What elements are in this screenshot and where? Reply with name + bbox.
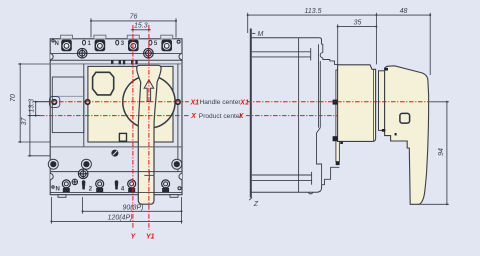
- Z label: [249, 197, 252, 200]
- bottom pole labels: [56, 187, 125, 193]
- X product center line left segment: [40, 115, 190, 117]
- pointer notch: [385, 68, 388, 71]
- X1 handle center line right segment: [247, 101, 429, 103]
- dimension 76: [90, 18, 92, 37]
- din clip outline bottom: [308, 167, 339, 194]
- svg-text:15.3: 15.3: [134, 22, 148, 29]
- knob circle: [123, 76, 175, 128]
- svg-text:120(4P): 120(4P): [108, 215, 133, 222]
- terminal bumps above top strip: [61, 35, 173, 39]
- dimension 15.3: [131, 29, 151, 31]
- dimension 70: [19, 64, 21, 142]
- svg-text:M: M: [258, 31, 264, 38]
- side body main: [338, 65, 376, 142]
- octagon pad: [93, 72, 114, 95]
- escutcheon panel (yellow): [88, 66, 173, 142]
- padlock hole: [400, 113, 410, 123]
- svg-text:48: 48: [400, 8, 408, 15]
- dimension 113.5: [247, 13, 249, 33]
- left recess rectangle: [52, 77, 84, 133]
- feet below body: [58, 195, 66, 198]
- big cross screws top: [77, 48, 153, 58]
- recess divider line: [52, 95, 84, 97]
- centermark cross on Y1: [144, 174, 154, 176]
- top terminal housings with rings: [61, 40, 172, 52]
- mounting plate: [250, 29, 322, 198]
- slotted screw below panel: [111, 150, 118, 157]
- svg-text:35: 35: [354, 19, 362, 26]
- svg-text:X1: X1: [239, 99, 249, 106]
- svg-text:113.5: 113.5: [305, 8, 322, 15]
- pole labels top: N 1 3 5: [55, 41, 158, 47]
- dimension 90(3P): [82, 197, 84, 214]
- face divider lines: [83, 64, 85, 147]
- svg-text:Handle center: Handle center: [200, 99, 242, 106]
- din clip column: [317, 44, 322, 185]
- din rail rod top: [252, 48, 311, 60]
- small square on panel: [119, 133, 126, 141]
- handle: [385, 66, 429, 205]
- body tabs: [333, 100, 338, 105]
- dimension 13.3: [35, 102, 37, 116]
- bottom terminal rings: [62, 180, 169, 193]
- dimension end dots front: [19, 20, 182, 223]
- X1 handle center line left segment: [50, 101, 189, 103]
- bottom strip inner line: [50, 191, 182, 193]
- left ear outline: [49, 97, 59, 108]
- din rail rod bottom: [252, 172, 312, 185]
- dimension 94: [429, 101, 449, 103]
- M label: [252, 32, 255, 34]
- black extension at X1 left: [36, 101, 50, 103]
- dimension 120(4P): [50, 197, 52, 224]
- svg-text:13.3: 13.3: [28, 99, 35, 113]
- ear screws: [48, 159, 182, 169]
- svg-text:N: N: [56, 187, 60, 193]
- svg-text:76: 76: [130, 13, 138, 20]
- Y vertical line: [132, 25, 134, 229]
- svg-text:70: 70: [10, 94, 17, 102]
- corner notches top strip: [50, 54, 53, 60]
- X product center line right segment: [246, 115, 337, 117]
- small tabs below top strip: [111, 60, 138, 64]
- handle hub: [379, 71, 385, 131]
- flange foot: [336, 162, 340, 166]
- din clip outline top: [320, 44, 338, 64]
- dimension 48: [376, 14, 430, 16]
- big cross screw bottom: [78, 169, 88, 179]
- svg-text:94: 94: [438, 148, 445, 156]
- clamp pins bottom: [82, 180, 118, 189]
- ear row lines: [50, 146, 182, 148]
- svg-text:37: 37: [21, 117, 28, 126]
- arrow on lever: [144, 80, 154, 102]
- Y1 vertical line: [148, 25, 150, 230]
- lever bar: [137, 65, 161, 204]
- svg-text:N: N: [55, 41, 59, 47]
- dimension 35: [337, 24, 339, 64]
- top strip lines: [50, 53, 182, 55]
- side body front flange: [336, 70, 340, 162]
- dimension 37: [29, 102, 31, 156]
- svg-text:Y1: Y1: [146, 234, 155, 241]
- small cross screw bottom: [72, 179, 78, 185]
- svg-text:Z: Z: [253, 201, 259, 208]
- svg-text:X1: X1: [190, 99, 200, 106]
- small slot ovals before labels: [52, 40, 180, 45]
- screws on handle-center line: [51, 99, 181, 105]
- notch under body: [340, 141, 343, 144]
- corner notches bottom strip: [50, 174, 53, 180]
- step marks: [382, 129, 385, 132]
- switch body outline: [50, 39, 182, 195]
- svg-text:Product center: Product center: [199, 113, 243, 120]
